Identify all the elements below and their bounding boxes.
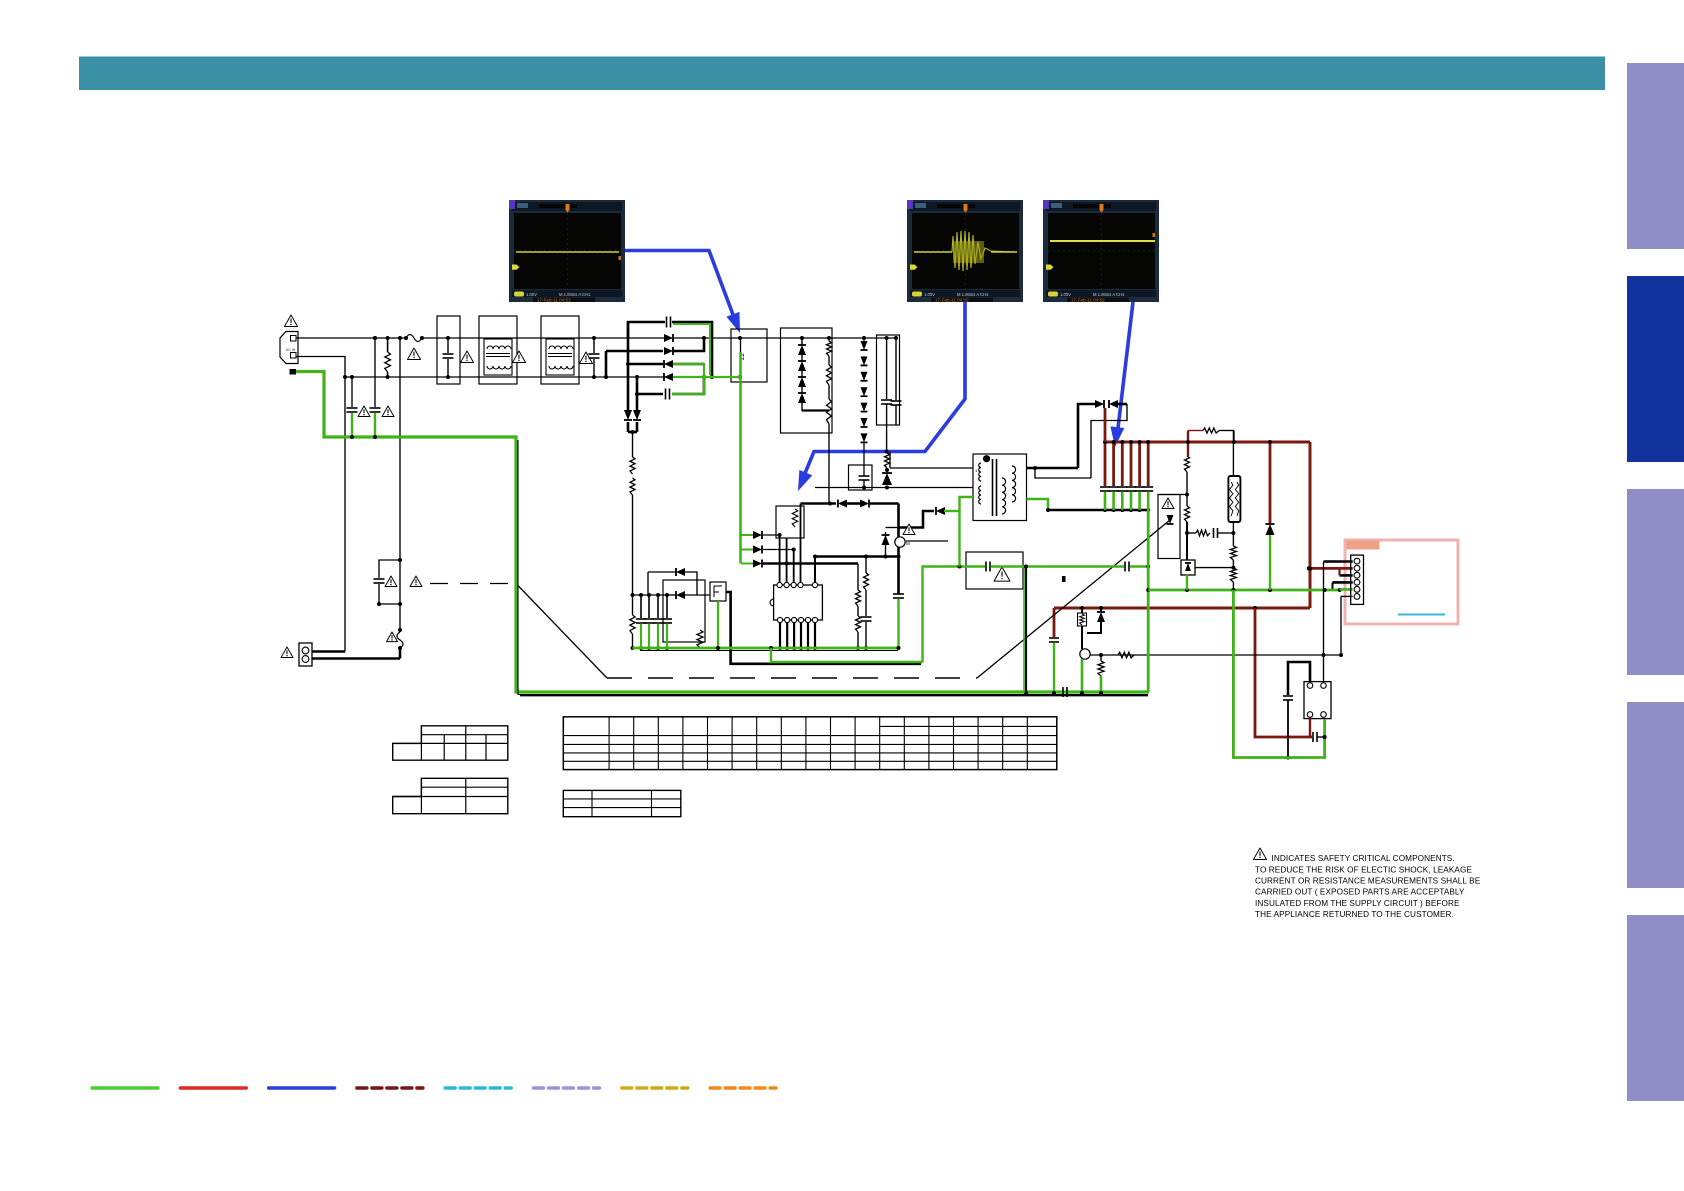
- IC1 bottom pin wires to ground bus: [779, 623, 781, 648]
- green top loop: [673, 324, 710, 375]
- green earth wire from plug: [296, 372, 1149, 693]
- T1 aux thin wire: [1035, 468, 1091, 478]
- svg-text:17-Feb-11 04:52: 17-Feb-11 04:52: [537, 298, 571, 303]
- T1 secondary top wire: [1027, 467, 1079, 470]
- maroon wire to pin2: [1309, 567, 1353, 570]
- ground pin stub: [290, 369, 297, 375]
- branch capacitors x641-x667: [640, 595, 642, 618]
- clamp diode D13: [885, 532, 887, 557]
- IC1 pin risers: [779, 535, 781, 582]
- maroon corner to connector: [1309, 442, 1312, 608]
- PC1 anode wire: [1288, 662, 1310, 695]
- photocoupler PC1: [1304, 682, 1331, 719]
- Y-capacitor C3 to ground: [351, 377, 353, 407]
- safety warning triangle: [1254, 848, 1267, 859]
- output capacitor C16: [1312, 732, 1314, 742]
- svg-text:CURRENT OR RESISTANCE MEASUREM: CURRENT OR RESISTANCE MEASUREMENTS SHALL…: [1255, 877, 1481, 886]
- svg-text:M: M: [906, 541, 910, 546]
- X-capacitor box Z2: [731, 329, 767, 382]
- Y-capacitor C4 to ground: [374, 338, 376, 407]
- bridge block box BD1: [781, 328, 833, 433]
- warning triangles at C5: [385, 576, 397, 587]
- snubber capacitor box: [849, 465, 873, 490]
- thin base wire y655: [1090, 654, 1340, 656]
- green drop x1054: [1053, 643, 1055, 694]
- warning triangle between chokes: [513, 351, 526, 362]
- green below D14: [1269, 535, 1271, 590]
- tiny label mark: [1062, 576, 1066, 582]
- thin gate line: [906, 540, 948, 542]
- connector pin4 wire: [1333, 581, 1353, 584]
- salmon header chip: [1347, 541, 1380, 550]
- thick riser x1078: [1078, 404, 1095, 468]
- startup box with resistor: [776, 506, 804, 538]
- junction x1026 y567: [1024, 565, 1028, 569]
- sidebar tab 5: [1627, 915, 1684, 1101]
- IC1 bottom pins: [777, 617, 782, 622]
- green transformer return: [960, 497, 974, 567]
- snubber resistor and diode on x887: [885, 450, 889, 454]
- green pin5 wire: [1340, 588, 1353, 591]
- Q4 emitter resistor: [1100, 655, 1102, 661]
- branch green returns: [1104, 492, 1107, 511]
- maroon branch wires: [1104, 442, 1107, 486]
- svg-text:1.00V: 1.00V: [526, 292, 537, 297]
- black shadow of long green run: [518, 440, 1148, 695]
- warning triangle near C1: [461, 351, 474, 362]
- warning triangle after L2: [580, 352, 593, 363]
- source resistor chain x866: [865, 557, 867, 574]
- connector pin3 wire: [1340, 574, 1353, 577]
- secondary filter branches: [1103, 508, 1107, 512]
- row3 wire with diode D3: [628, 363, 663, 366]
- warning triangle box below T1: [966, 552, 1023, 589]
- green under-IC run y662: [769, 646, 773, 650]
- svg-text:17-Feb-11 04:52: 17-Feb-11 04:52: [935, 298, 969, 303]
- green dots on ground bus: [1024, 691, 1028, 695]
- primary feed wire y487: [815, 487, 973, 489]
- shunt regulator box with warning: [1158, 495, 1180, 559]
- T1 core: [992, 459, 994, 516]
- wire live L from plug: [296, 337, 406, 339]
- legend wire color samples: [92, 1086, 158, 1089]
- green bridge row3: [673, 364, 704, 377]
- svg-text:M 1.00ms A CH1: M 1.00ms A CH1: [559, 292, 591, 297]
- output connector CN3: [1351, 555, 1364, 604]
- resistor chain x1233 lower: [1232, 533, 1234, 546]
- maroon drop x1255: [1255, 608, 1312, 737]
- blue pointer arrow from scope 2: [803, 302, 965, 478]
- wire CN2 pin1: [312, 650, 345, 653]
- table: small chart below: [563, 790, 681, 816]
- warning triangles at Y-caps: [358, 406, 370, 417]
- junction bar under D5 D6: [628, 431, 637, 434]
- regulator top loop resistor R6: [1203, 428, 1219, 433]
- PC1 cathode wire maroon: [1309, 718, 1311, 738]
- svg-text:M 1.00ms A CH1: M 1.00ms A CH1: [1093, 292, 1125, 297]
- oscilloscope capture 1 (flat trace): [509, 200, 625, 302]
- table: voltage chart center: [563, 717, 1057, 770]
- BD1 bottom bar: [802, 409, 829, 411]
- maroon dc bus y442: [1105, 441, 1310, 444]
- maroon branch x1270 with diode D14: [1269, 442, 1272, 523]
- common-mode choke L1 windings: [484, 339, 512, 375]
- maroon riser to diode pair: [1104, 408, 1107, 442]
- green bus y590: [1148, 589, 1340, 592]
- filter branch bus y595: [633, 594, 668, 596]
- svg-text:M 1.00ms A CH1: M 1.00ms A CH1: [957, 292, 989, 297]
- wire x400 vertical: [399, 338, 401, 630]
- aux diode row y572: [647, 572, 649, 595]
- connector CN2 to chassis: [299, 643, 312, 666]
- AC inlet plug J1: [280, 332, 298, 364]
- aux diode box: [663, 580, 705, 642]
- green output net: [1233, 590, 1324, 758]
- warning triangle at TH1: [387, 632, 398, 642]
- aux diode row y595: [667, 594, 676, 596]
- common-mode choke L1 outer box: [479, 316, 517, 384]
- svg-text:CARRIED OUT ( EXPOSED PARTS AR: CARRIED OUT ( EXPOSED PARTS ARE ACCEPTAB…: [1255, 888, 1465, 897]
- svg-text:THE APPLIANCE RETURNED TO THE: THE APPLIANCE RETURNED TO THE CUSTOMER.: [1255, 910, 1454, 919]
- oscilloscope capture 2 (burst trace): [907, 200, 1023, 302]
- transistor Q4: [1080, 649, 1090, 659]
- gate drive wire y503: [801, 502, 837, 505]
- wire CN2 pin2: [312, 657, 400, 660]
- regulator chain x1187: [1185, 456, 1190, 472]
- surge diode chain D7 (7 diodes): [863, 338, 865, 341]
- green secondary vertical x1148: [1147, 510, 1150, 692]
- feedback diode row wire y549: [763, 549, 794, 551]
- freewheel diode D12: [936, 507, 945, 515]
- sense wire y556: [815, 555, 899, 558]
- resistor chain x858: [857, 564, 859, 591]
- capacitor C17 in long green bus: [1062, 687, 1064, 697]
- maroon bottom bus y608: [1054, 607, 1310, 610]
- T1 secondary windings: [1002, 478, 1006, 514]
- green ground bus y648: [633, 647, 899, 650]
- transistor Q2 symbol: [895, 537, 905, 547]
- vertical x628 with diode D5: [627, 322, 630, 410]
- regulator rc y533: [1187, 532, 1196, 534]
- header teal bar: [79, 57, 1605, 91]
- green after emitter resistor: [1100, 676, 1103, 693]
- maroon drop x1054 with capacitor: [1053, 608, 1056, 637]
- diode pair D8 D9: [1095, 400, 1104, 408]
- BD1 right resistor chain: [828, 338, 830, 341]
- wire neutral bus: [345, 376, 666, 378]
- bulk capacitor box C7 C8: [877, 335, 900, 425]
- blue pointer arrow from scope 1: [625, 251, 735, 321]
- mosfet Q1 path: [897, 504, 900, 595]
- fuse F1: [406, 335, 422, 342]
- sidebar tab 1: [1627, 63, 1684, 249]
- green branch stubs y625-648: [640, 624, 642, 649]
- green from Q3: [717, 601, 719, 648]
- regulator top loop maroon: [1187, 431, 1189, 457]
- green below zener: [1186, 575, 1188, 590]
- feedback diode row wire y535: [763, 534, 780, 536]
- svg-text:AC IN: AC IN: [286, 348, 296, 352]
- common-mode choke L2 windings: [546, 339, 574, 375]
- capacitor C2 across mains: [593, 338, 595, 353]
- zener in shunt box: [1167, 515, 1174, 524]
- svg-text:1.00V: 1.00V: [1060, 292, 1071, 297]
- dashed annotation leader: [430, 583, 516, 585]
- branch resistor x632: [632, 595, 634, 615]
- bridge top loop wire: [628, 322, 665, 338]
- cyan underline: [1398, 614, 1445, 616]
- remote block pink outline: [1345, 540, 1458, 624]
- gate diodes D10 D11: [838, 500, 847, 508]
- mosfet source capacitor x898: [893, 593, 904, 595]
- svg-text:1.00V: 1.00V: [924, 292, 935, 297]
- rectifier diode D1 row1: [373, 336, 377, 340]
- connector pin1 wire: [1324, 560, 1353, 563]
- row2 wire with diode D2: [606, 350, 663, 353]
- green black column x1026: [1025, 567, 1027, 693]
- row1 wire segments: [702, 336, 706, 340]
- green riser x898: [897, 599, 899, 649]
- base resistor R8: [1118, 652, 1134, 658]
- warning triangle at Q1: [903, 524, 915, 535]
- wire y468 to transformer: [890, 467, 973, 469]
- BD1 left diode chain: [801, 338, 803, 345]
- warning triangle at CN2: [281, 647, 293, 658]
- branch capacitors C10-C15: [1100, 486, 1110, 488]
- green bus black edge: [640, 650, 898, 652]
- secondary rectifier bus y510: [1027, 499, 1049, 510]
- green stubs from Y caps: [351, 413, 353, 438]
- IC1 top pins: [777, 582, 782, 587]
- diode D16 beside Q4: [1100, 608, 1102, 611]
- green bridge row5: [672, 378, 704, 394]
- green x741 from Z2 box: [739, 352, 742, 564]
- resistor pack box: [1228, 476, 1240, 522]
- connector pin6 wire: [1341, 595, 1353, 597]
- wire live after fuse: [422, 337, 896, 339]
- Q4 collector riser: [1081, 608, 1083, 613]
- svg-text:INDICATES SAFETY CRITICAL COMP: INDICATES SAFETY CRITICAL COMPONENTS.: [1272, 854, 1455, 863]
- capacitor C5 loop on x400: [379, 560, 400, 578]
- resistor chain R2 R3: [632, 432, 634, 457]
- aux resistor R5: [697, 630, 703, 648]
- warning triangle near fuse: [408, 348, 421, 359]
- common-mode choke L2 outer box: [541, 316, 579, 384]
- Q4 base green drop: [1081, 659, 1084, 693]
- table: parts list small left upper: [393, 726, 508, 760]
- row5 wire with capacitor C6: [637, 377, 663, 394]
- zener box D15: [1181, 560, 1195, 575]
- green net x922 y566: [923, 567, 960, 663]
- feedback diode row wire y563 thick: [763, 562, 858, 565]
- snubber loop right of T1: [1091, 404, 1127, 478]
- table: parts list small left lower: [393, 778, 508, 813]
- blue pointer arrow from scope 3: [1118, 302, 1133, 428]
- green bridge row4: [673, 376, 741, 378]
- vertical x637 with diode D6: [636, 394, 639, 410]
- T1 primary windings: [979, 463, 981, 481]
- X-capacitor box C1: [437, 316, 460, 384]
- photo driver box Q3: [710, 582, 726, 601]
- sidebar tab 3: [1627, 489, 1684, 675]
- resistor R1 across mains: [386, 336, 390, 340]
- row4 diode D4: [664, 373, 673, 381]
- wire neutral N from plug: [296, 357, 345, 378]
- T1 phase dot: [983, 455, 990, 462]
- switching transformer T1 box: [973, 454, 1027, 521]
- svg-text:17-Feb-11 04:52: 17-Feb-11 04:52: [1071, 298, 1105, 303]
- thick link from Q3: [726, 592, 921, 664]
- svg-text:TO REDUCE THE RISK OF ELECTIC: TO REDUCE THE RISK OF ELECTIC SHOCK, LEA…: [1255, 866, 1472, 875]
- sidebar tab 2 (active): [1627, 276, 1684, 462]
- thermistor TH1 on x400: [398, 628, 402, 632]
- svg-text:INSULATED FROM THE SUPPLY CIRC: INSULATED FROM THE SUPPLY CIRCUIT ) BEFO…: [1255, 899, 1460, 908]
- ground bus caps black shadow: [520, 694, 1148, 696]
- pwm controller IC1 box: [774, 585, 823, 620]
- oscilloscope capture 3 (dc trace): [1043, 200, 1159, 302]
- wire zener to resistor: [1195, 567, 1233, 569]
- sidebar tab 4: [1627, 702, 1684, 888]
- warning triangle above plug: [285, 315, 298, 326]
- wire x345 to connector: [344, 377, 346, 652]
